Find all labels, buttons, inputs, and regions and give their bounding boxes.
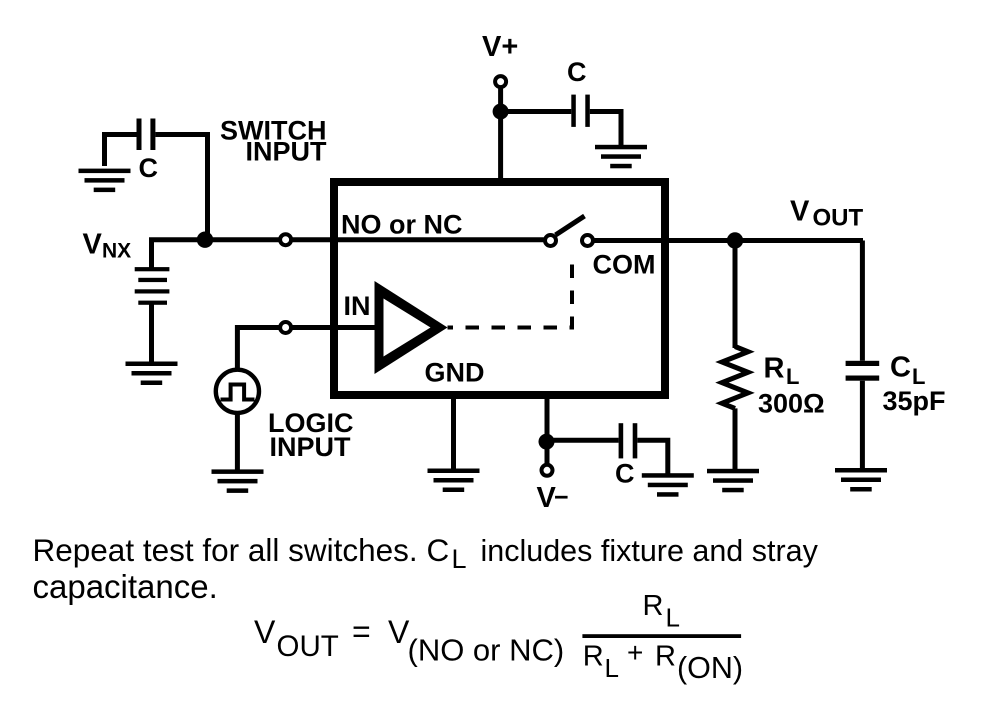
svg-text:=: = bbox=[352, 614, 371, 650]
IN terminal circle bbox=[280, 322, 291, 333]
wire: RL to ground bbox=[733, 408, 738, 471]
ground (CL) bbox=[835, 468, 887, 492]
svg-text:L: L bbox=[666, 603, 680, 633]
buffer amplifier triangle bbox=[375, 281, 448, 374]
wire: VOUT to RL bbox=[733, 241, 738, 349]
svg-text:NO or NC: NO or NC bbox=[341, 210, 463, 240]
svg-text:35pF: 35pF bbox=[883, 386, 946, 416]
svg-text:IN: IN bbox=[344, 291, 371, 321]
svg-text:R: R bbox=[655, 641, 676, 673]
node V+ junction dot bbox=[493, 104, 509, 120]
switch S1 bbox=[545, 216, 593, 246]
svg-text:INPUT: INPUT bbox=[246, 137, 328, 167]
svg-text:C: C bbox=[139, 153, 159, 183]
ground (RL) bbox=[707, 469, 759, 493]
NO terminal circle bbox=[280, 234, 291, 245]
logic pulse source V2 bbox=[216, 370, 259, 413]
svg-text:L: L bbox=[452, 544, 467, 574]
wire: source to ground bbox=[235, 415, 240, 472]
V- terminal circle bbox=[542, 465, 553, 476]
svg-text:V: V bbox=[790, 196, 810, 228]
svg-text:INPUT: INPUT bbox=[270, 432, 352, 462]
wire: GND pin to ground bbox=[451, 399, 456, 470]
wire: COM to VOUT bbox=[595, 238, 864, 243]
capacitor CL plates bbox=[846, 361, 880, 366]
dashed control line bbox=[448, 253, 573, 328]
svg-text:L: L bbox=[786, 364, 799, 389]
node V- junction dot bbox=[539, 434, 555, 450]
wire: VNX node to NO pin bbox=[149, 237, 544, 242]
wire: C3 to ground bbox=[637, 440, 668, 476]
ground (logic source) bbox=[212, 469, 264, 493]
svg-text:R: R bbox=[764, 353, 785, 385]
pulse symbol bbox=[221, 385, 255, 400]
svg-text:300Ω: 300Ω bbox=[758, 388, 825, 418]
svg-text:includes fixture and stray: includes fixture and stray bbox=[472, 534, 819, 568]
IC box U1 bbox=[334, 182, 665, 395]
capacitor C2 plates bbox=[571, 95, 576, 127]
svg-text:COM: COM bbox=[593, 250, 656, 280]
ground (bottom C) bbox=[642, 473, 694, 497]
svg-text:C: C bbox=[890, 352, 911, 384]
svg-text:+: + bbox=[627, 637, 643, 668]
node VNX junction dot bbox=[197, 232, 213, 248]
capacitor C1 left plates bbox=[137, 119, 142, 151]
svg-text:(NO or NC): (NO or NC) bbox=[408, 633, 565, 668]
battery B1 bbox=[135, 240, 170, 363]
svg-text:C: C bbox=[615, 459, 635, 489]
wire: C2 to ground bbox=[590, 112, 621, 148]
capacitor C3 plates bbox=[619, 423, 624, 458]
svg-text:−: − bbox=[554, 484, 569, 512]
svg-text:V: V bbox=[83, 229, 103, 261]
svg-text:OUT: OUT bbox=[813, 205, 864, 232]
svg-text:OUT: OUT bbox=[277, 630, 339, 663]
svg-text:R: R bbox=[583, 641, 604, 673]
wire: V- pin down bbox=[545, 399, 550, 464]
wire: C1 left to ground bbox=[105, 135, 137, 167]
wire: C1 right down to VNX node bbox=[155, 135, 207, 238]
svg-text:C: C bbox=[567, 57, 587, 87]
svg-text:V+: V+ bbox=[482, 31, 518, 63]
svg-text:C: C bbox=[427, 532, 450, 568]
formula fraction bar bbox=[582, 634, 741, 638]
ground (top C) bbox=[595, 145, 647, 169]
svg-text:R: R bbox=[643, 590, 664, 622]
wire: VOUT to CL bbox=[860, 241, 865, 361]
svg-text:(ON): (ON) bbox=[677, 651, 743, 685]
wire: V+ down to box bbox=[498, 88, 503, 182]
resistor RL zigzag bbox=[722, 347, 748, 409]
wire: V- to C3 bbox=[547, 438, 619, 443]
svg-text:Repeat test for all switches.: Repeat test for all switches. bbox=[33, 532, 418, 568]
svg-text:NX: NX bbox=[102, 240, 131, 263]
svg-text:capacitance.: capacitance. bbox=[33, 568, 218, 605]
wire: CL to ground bbox=[860, 381, 865, 471]
svg-text:L: L bbox=[605, 653, 619, 683]
ground (left C) bbox=[79, 169, 131, 193]
V+ terminal circle bbox=[495, 76, 506, 87]
wire: V+ to C2 bbox=[501, 109, 572, 114]
node VOUT junction dot bbox=[727, 232, 743, 248]
svg-text:GND: GND bbox=[425, 358, 485, 388]
ground (GND pin) bbox=[428, 469, 480, 493]
wire: logic input to IN pin bbox=[237, 328, 378, 370]
svg-text:V: V bbox=[254, 614, 276, 650]
ground (battery) bbox=[126, 362, 178, 386]
